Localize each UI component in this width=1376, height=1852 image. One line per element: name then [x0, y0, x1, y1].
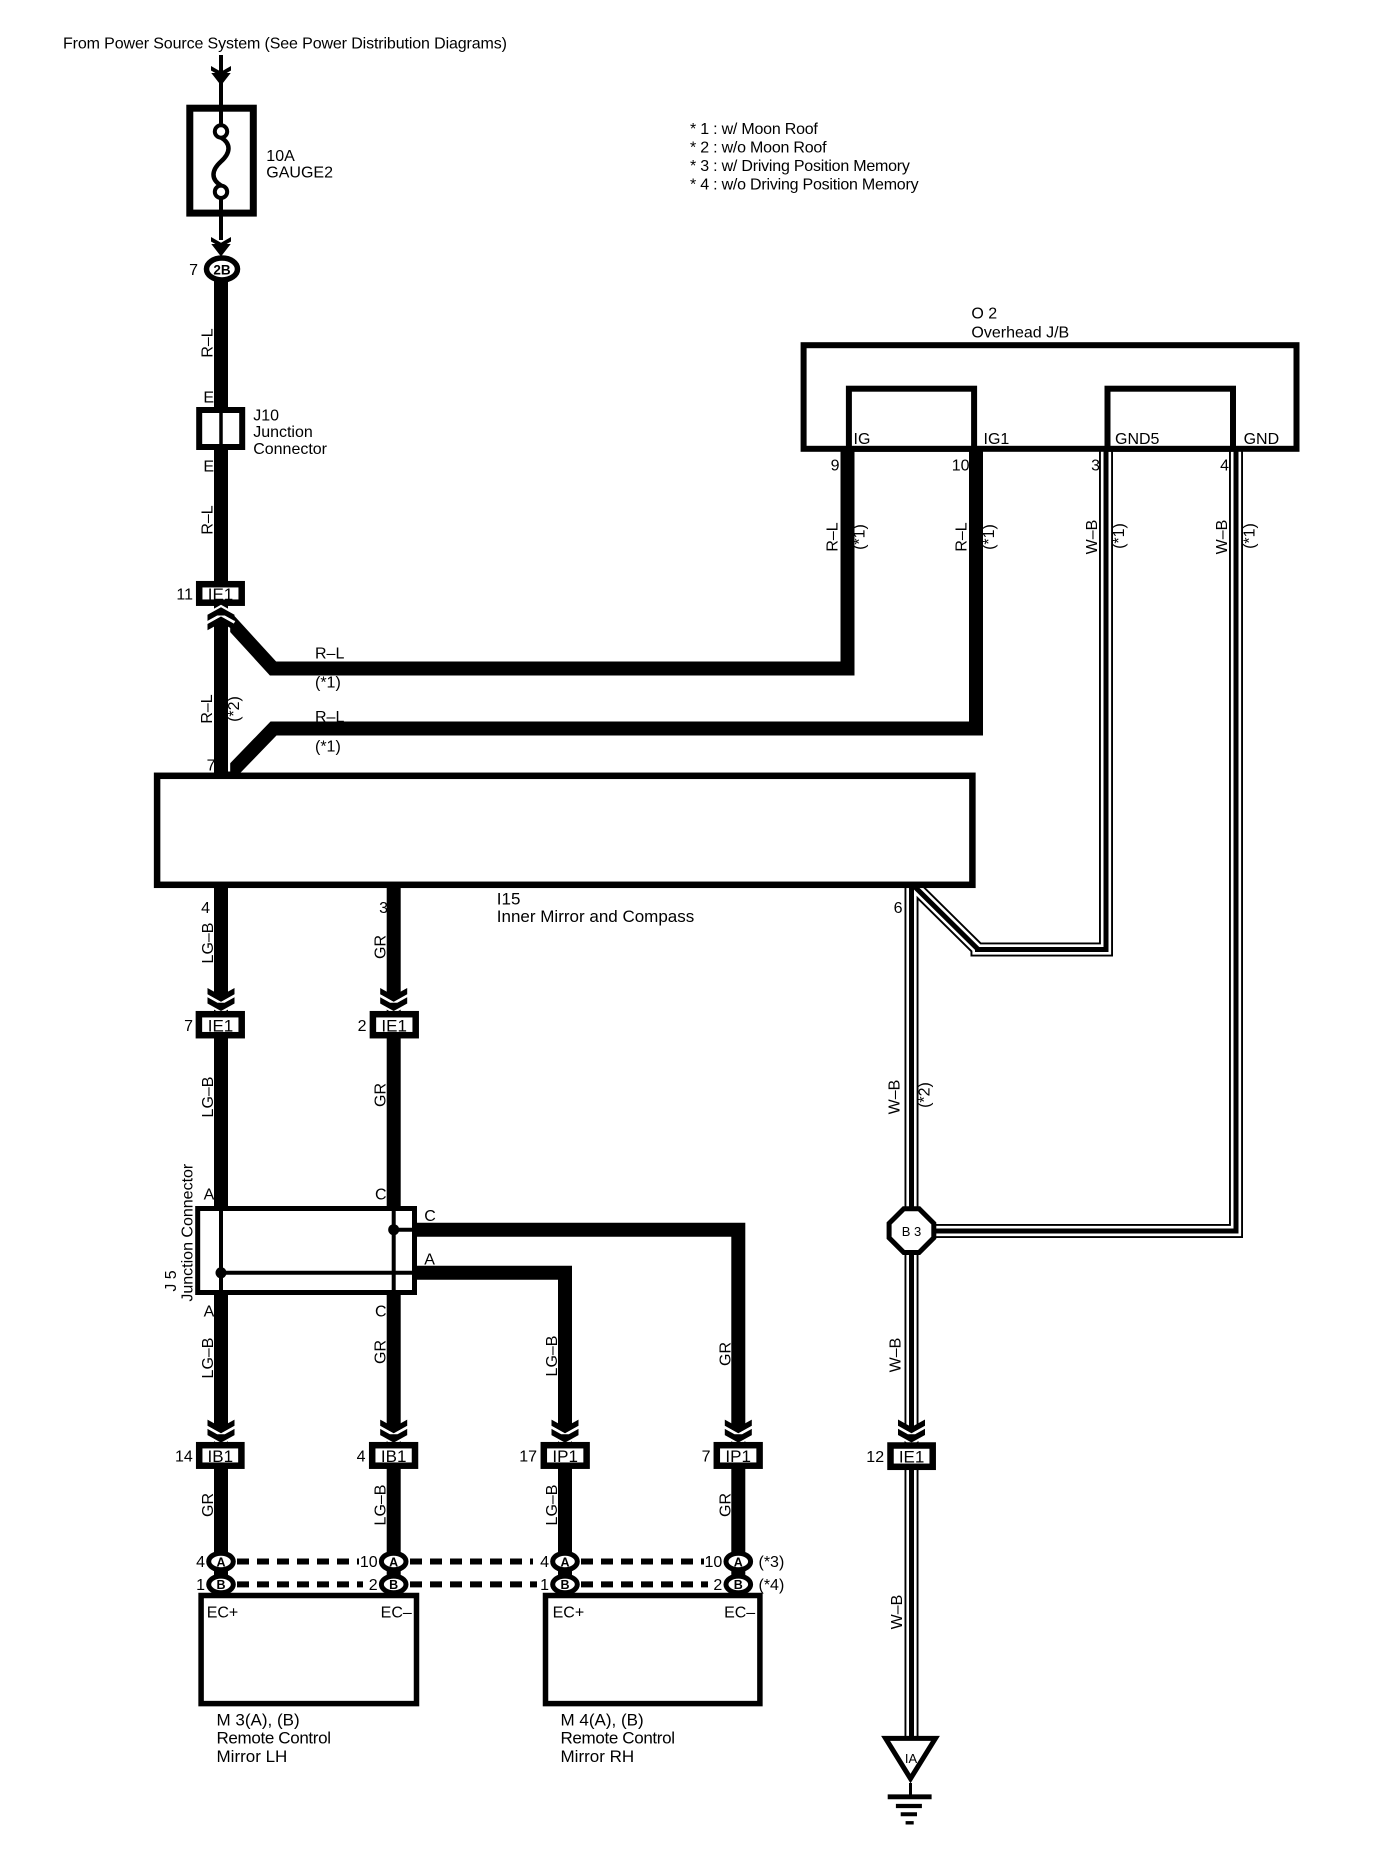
wire W-B (*1) from Overhead J/B GND5 pin3 (channel): [915, 449, 1106, 950]
svg-text:Mirror RH: Mirror RH: [561, 1747, 635, 1766]
svg-text:R–L: R–L: [315, 709, 344, 726]
arrow into IE1 pin7: [208, 996, 235, 1004]
connector 2B pin 7: [207, 258, 238, 280]
svg-text:R–L: R–L: [954, 522, 971, 551]
fuse element: [214, 138, 229, 186]
svg-text:GAUGE2: GAUGE2: [266, 165, 333, 182]
fuse feed wire: [219, 55, 223, 130]
svg-text:W–B: W–B: [888, 1338, 905, 1373]
svg-text:7: 7: [184, 1018, 193, 1035]
svg-text:B: B: [734, 1578, 743, 1592]
Overhead J/B O2 outer box: [804, 345, 1297, 449]
svg-text:J10: J10: [253, 408, 279, 425]
wire GR col2: I15 pin3 down to mirror LH: [387, 888, 401, 1596]
svg-text:14: 14: [175, 1449, 193, 1466]
svg-text:(*1): (*1): [981, 524, 998, 550]
arrow into IB1 pin14: [208, 1427, 235, 1435]
svg-text:2: 2: [713, 1577, 722, 1594]
wire W-B (*1) from Overhead J/B GND pin4 to B3 (channel): [934, 449, 1236, 1231]
svg-text:* 3 : w/ Driving Position Memo: * 3 : w/ Driving Position Memory: [690, 158, 910, 175]
arrow into IE1 pin2: [380, 996, 407, 1004]
connector IP1 pin 17: [544, 1445, 587, 1466]
svg-text:R–L: R–L: [199, 694, 216, 723]
svg-text:2B: 2B: [213, 263, 231, 278]
terminal B circle x=221.0: [209, 1576, 234, 1593]
svg-text:A: A: [204, 1187, 215, 1204]
ground point IA: [886, 1738, 936, 1778]
connector IE1 pin 12: [891, 1446, 933, 1467]
connector IB1 pin 4: [372, 1445, 415, 1466]
svg-text:IE1: IE1: [899, 1447, 925, 1466]
svg-text:* 4 : w/o Driving Position Mem: * 4 : w/o Driving Position Memory: [690, 177, 919, 194]
svg-text:IE1: IE1: [208, 585, 234, 604]
svg-text:GR: GR: [200, 1493, 217, 1517]
svg-text:IB1: IB1: [381, 1447, 407, 1466]
junction B3: [889, 1209, 934, 1253]
terminal A circle x=565.0: [553, 1553, 578, 1570]
svg-text:4: 4: [201, 900, 210, 917]
svg-text:(*3): (*3): [759, 1554, 785, 1571]
svg-text:W–B: W–B: [889, 1595, 906, 1630]
svg-text:LG–B: LG–B: [544, 1336, 561, 1377]
wire R-L (*2) from IE1 to I15 pin7: [214, 606, 228, 776]
svg-text:LG–B: LG–B: [373, 1485, 390, 1526]
svg-text:4: 4: [357, 1449, 366, 1466]
connector IP1 pin 7: [717, 1445, 760, 1466]
svg-text:A: A: [734, 1555, 743, 1569]
arrow into IE1 pin12: [898, 1427, 925, 1435]
svg-text:4: 4: [1220, 458, 1229, 475]
svg-text:A: A: [389, 1555, 398, 1569]
junction connector J5: [198, 1209, 415, 1293]
J5 internal bus col2: [392, 1208, 396, 1293]
svg-text:* 1 : w/ Moon Roof: * 1 : w/ Moon Roof: [690, 121, 818, 138]
connector IE1 pin 2: [373, 1014, 416, 1035]
component M4 Remote Control Mirror RH: [546, 1596, 760, 1704]
svg-text:GR: GR: [373, 1083, 390, 1107]
Overhead J/B IG block: [849, 389, 974, 449]
svg-text:W–B: W–B: [1214, 520, 1231, 555]
svg-text:Remote Control: Remote Control: [561, 1729, 675, 1748]
svg-text:C: C: [375, 1304, 387, 1321]
ground stem: [909, 1783, 912, 1796]
svg-text:IG1: IG1: [984, 431, 1010, 448]
svg-text:17: 17: [519, 1449, 537, 1466]
svg-text:LG–B: LG–B: [200, 1338, 217, 1379]
svg-text:Inner Mirror and Compass: Inner Mirror and Compass: [497, 907, 694, 926]
svg-text:7: 7: [207, 758, 216, 775]
svg-text:B: B: [216, 1578, 225, 1592]
svg-text:A: A: [424, 1252, 435, 1269]
svg-text:10A: 10A: [266, 148, 295, 165]
svg-text:IE1: IE1: [208, 1017, 234, 1036]
component I15 Inner Mirror and Compass: [157, 776, 972, 885]
wire W-B (*1) from Overhead J/B GND5 pin3 (outer): [915, 449, 1106, 950]
svg-text:Remote Control: Remote Control: [217, 1729, 331, 1748]
svg-text:(*2): (*2): [226, 696, 243, 722]
svg-text:IA: IA: [905, 1751, 918, 1766]
svg-text:10: 10: [952, 458, 970, 475]
terminal B circle x=565.0: [553, 1576, 578, 1593]
svg-text:R–L: R–L: [200, 505, 217, 534]
J5 internal bus col1: [219, 1208, 223, 1293]
terminal B circle x=738.3: [726, 1576, 751, 1593]
svg-text:R–L: R–L: [315, 646, 344, 663]
svg-text:GND5: GND5: [1115, 431, 1160, 448]
arrow into IB1 pin4: [380, 1427, 407, 1435]
svg-text:LG–B: LG–B: [544, 1485, 561, 1526]
svg-text:12: 12: [866, 1449, 884, 1466]
svg-text:3: 3: [379, 900, 388, 917]
svg-text:IG: IG: [854, 431, 871, 448]
ground bars: [888, 1794, 932, 1799]
svg-text:EC–: EC–: [381, 1605, 412, 1622]
svg-text:10: 10: [360, 1554, 378, 1571]
svg-text:(*2): (*2): [917, 1082, 934, 1108]
J5 internal C line: [394, 1228, 415, 1232]
svg-text:7: 7: [189, 262, 198, 279]
svg-text:C: C: [375, 1187, 387, 1204]
J5 junction dot C: [388, 1224, 399, 1235]
svg-text:1: 1: [540, 1577, 549, 1594]
svg-text:EC–: EC–: [724, 1605, 755, 1622]
svg-text:Junction Connector: Junction Connector: [180, 1163, 197, 1302]
wire R-L (*1) branch to Overhead J/B pin 10: [230, 449, 977, 774]
svg-text:9: 9: [831, 458, 840, 475]
J5 internal A line: [221, 1271, 415, 1275]
fuse 10A GAUGE2: [190, 108, 254, 213]
Overhead J/B GND5 block: [1108, 389, 1234, 449]
svg-text:IP1: IP1: [552, 1447, 578, 1466]
svg-text:Connector: Connector: [253, 441, 327, 458]
wire W-B (*1) from Overhead J/B GND pin4 to B3 (core): [934, 449, 1236, 1231]
svg-text:4: 4: [540, 1554, 549, 1571]
svg-text:Junction: Junction: [253, 424, 313, 441]
svg-text:W–B: W–B: [1084, 520, 1101, 555]
svg-text:R–L: R–L: [200, 328, 217, 357]
svg-text:A: A: [560, 1555, 569, 1569]
wire W-B main ground run (I15 pin6 to IA ground) (channel): [906, 888, 916, 1740]
svg-text:GR: GR: [718, 1342, 735, 1366]
svg-text:C: C: [424, 1208, 436, 1225]
wire W-B main ground run (I15 pin6 to IA ground) (core): [909, 888, 914, 1740]
svg-text:6: 6: [894, 900, 903, 917]
svg-text:A: A: [216, 1555, 225, 1569]
svg-text:4: 4: [196, 1554, 205, 1571]
wire W-B main ground run (I15 pin6 to IA ground) (outer): [905, 888, 919, 1740]
svg-text:* 2 : w/o Moon Roof: * 2 : w/o Moon Roof: [690, 139, 827, 156]
svg-text:M 3(A), (B): M 3(A), (B): [217, 1710, 300, 1729]
svg-text:IB1: IB1: [208, 1447, 234, 1466]
svg-text:Overhead J/B: Overhead J/B: [971, 325, 1069, 342]
svg-text:IE1: IE1: [381, 1017, 407, 1036]
svg-text:GR: GR: [373, 935, 390, 959]
svg-text:From Power Source System (See: From Power Source System (See Power Dist…: [63, 35, 507, 52]
svg-text:(*1): (*1): [315, 739, 341, 756]
wire A-branch from J5 to col3: [413, 1273, 565, 1596]
svg-text:W–B: W–B: [887, 1080, 904, 1115]
dashed link row B: [237, 1581, 363, 1587]
svg-text:GR: GR: [718, 1493, 735, 1517]
wire W-B (*1) from Overhead J/B GND pin4 to B3 (outer): [934, 449, 1236, 1231]
J5 junction dot A: [216, 1267, 227, 1278]
svg-text:LG–B: LG–B: [200, 1077, 217, 1118]
svg-text:A: A: [204, 1304, 215, 1321]
dashed link row A: [237, 1559, 359, 1565]
svg-text:M 4(A), (B): M 4(A), (B): [561, 1710, 644, 1729]
connector IE1 pin 7: [199, 1014, 242, 1035]
svg-text:(*1): (*1): [1242, 523, 1259, 549]
svg-text:E: E: [203, 459, 214, 476]
svg-text:Mirror LH: Mirror LH: [217, 1747, 288, 1766]
svg-text:11: 11: [176, 587, 193, 604]
svg-text:(*1): (*1): [852, 524, 869, 550]
connector IB1 pin 14: [199, 1445, 241, 1466]
arrow up into IE1 pin 11: [208, 615, 235, 623]
svg-text:B: B: [560, 1578, 569, 1592]
svg-text:LG–B: LG–B: [200, 923, 217, 964]
wire fuse to connector 2B: [219, 198, 223, 240]
wire W-B (*1) from Overhead J/B GND5 pin3 (core): [915, 449, 1106, 950]
svg-text:(*1): (*1): [1111, 523, 1128, 549]
svg-text:3: 3: [1091, 458, 1100, 475]
wire R-L from 2B to IE1 (col1 upper): [214, 280, 228, 606]
svg-text:B 3: B 3: [902, 1224, 922, 1239]
arrow into IP1 pin7: [725, 1427, 752, 1435]
terminal A circle x=738.3: [726, 1553, 751, 1570]
svg-text:GR: GR: [373, 1340, 390, 1364]
component M3 Remote Control Mirror LH: [201, 1596, 416, 1704]
svg-text:(*1): (*1): [315, 675, 341, 692]
svg-text:2: 2: [369, 1577, 378, 1594]
arrow from power source: [211, 72, 231, 78]
svg-text:J 5: J 5: [163, 1270, 180, 1291]
svg-text:I15: I15: [497, 889, 521, 908]
svg-text:GND: GND: [1244, 431, 1280, 448]
svg-text:7: 7: [702, 1449, 711, 1466]
wire LG-B col1: I15 pin4 down to mirror LH: [214, 888, 228, 1596]
svg-text:EC+: EC+: [207, 1605, 239, 1622]
svg-text:R–L: R–L: [825, 522, 842, 551]
svg-text:1: 1: [196, 1577, 205, 1594]
svg-text:2: 2: [358, 1018, 367, 1035]
svg-text:E: E: [203, 390, 214, 407]
arrow into IP1 pin17: [552, 1427, 579, 1435]
svg-text:10: 10: [705, 1554, 723, 1571]
svg-text:(*4): (*4): [759, 1577, 785, 1594]
arrow into 2B: [211, 243, 231, 249]
terminal B circle x=393.7: [381, 1576, 406, 1593]
svg-text:O 2: O 2: [971, 306, 997, 323]
connector IE1 pin 11: [199, 584, 242, 603]
junction connector J10: [199, 410, 242, 447]
wire C-branch from J5 to col4: [413, 1230, 738, 1596]
svg-text:B: B: [389, 1578, 398, 1592]
svg-text:IP1: IP1: [725, 1447, 751, 1466]
wire R-L (*1) branch to Overhead J/B pin 9: [225, 449, 848, 669]
terminal A circle x=393.7: [381, 1553, 406, 1570]
svg-text:EC+: EC+: [553, 1605, 585, 1622]
terminal A circle x=221.0: [209, 1553, 234, 1570]
